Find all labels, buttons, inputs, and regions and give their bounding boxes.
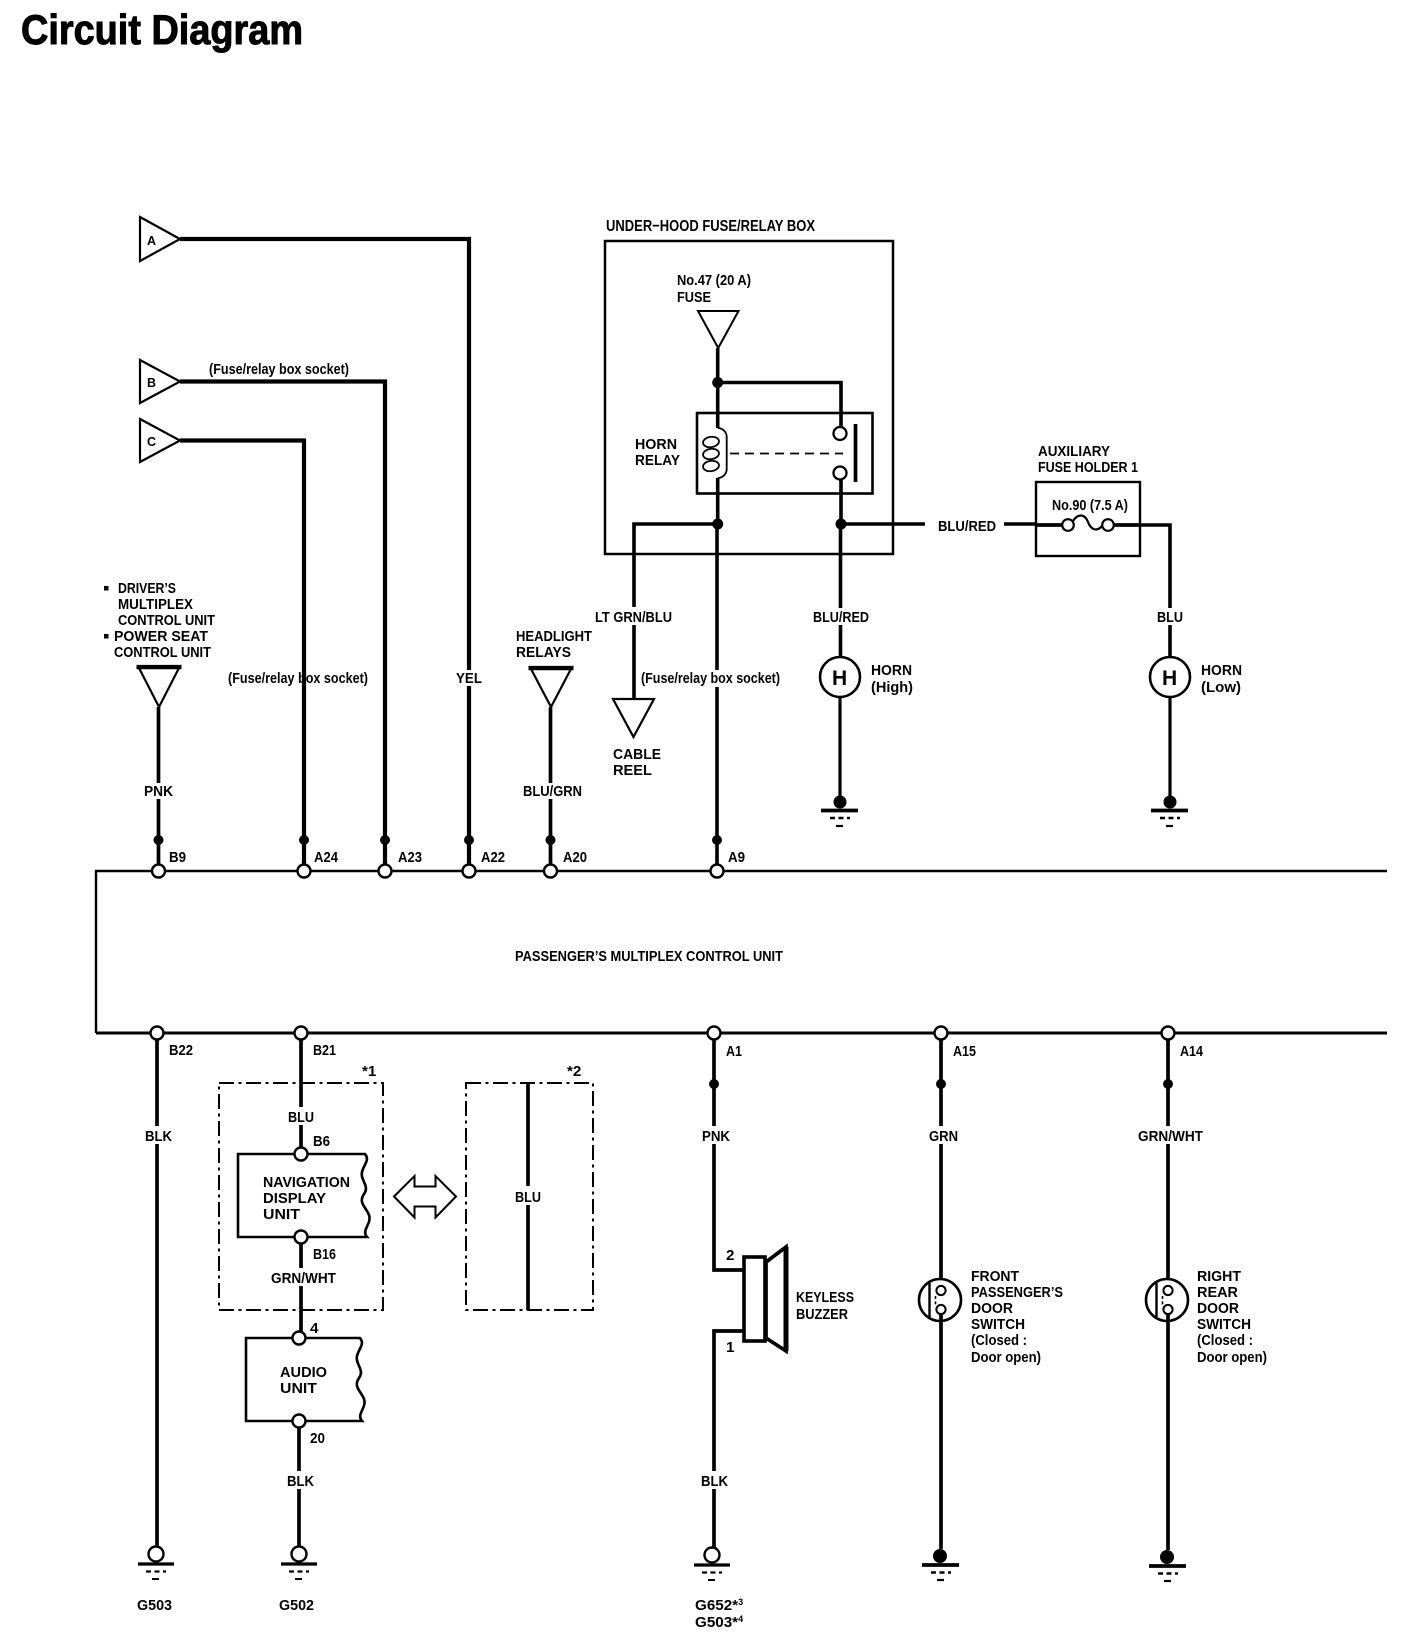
svg-text:A: A — [147, 234, 156, 248]
svg-text:DOOR: DOOR — [971, 1300, 1013, 1317]
svg-text:HORN: HORN — [635, 436, 677, 453]
svg-text:GRN/WHT: GRN/WHT — [271, 1270, 337, 1287]
wire B21 BLU — [299, 1040, 303, 1154]
terminal A22 — [463, 865, 476, 878]
svg-text:A22: A22 — [481, 849, 505, 866]
wire fuse to coil — [716, 348, 720, 428]
svg-text:B: B — [147, 376, 156, 390]
svg-text:B22: B22 — [169, 1042, 193, 1059]
terminal A14 — [1162, 1027, 1175, 1040]
dash-dot box *2 — [466, 1083, 593, 1310]
terminal B6 — [295, 1148, 308, 1161]
wire contact down — [839, 479, 843, 524]
wire to ground — [939, 1313, 943, 1549]
svg-text:B9: B9 — [169, 849, 186, 866]
svg-text:UNDER−HOOD FUSE/RELAY BOX: UNDER−HOOD FUSE/RELAY BOX — [606, 218, 815, 235]
terminal B21 — [295, 1027, 308, 1040]
ground (A15) — [922, 1549, 959, 1580]
svg-text:BLU: BLU — [288, 1109, 314, 1126]
svg-text:RELAY: RELAY — [635, 452, 680, 469]
keyless buzzer — [744, 1247, 786, 1351]
svg-text:REEL: REEL — [613, 762, 652, 779]
svg-text:B6: B6 — [313, 1133, 330, 1150]
wire BLU to horn low — [1140, 525, 1170, 657]
svg-text:G652*3: G652*3 — [695, 1597, 743, 1614]
svg-text:PASSENGER’S MULTIPLEX CONTROL: PASSENGER’S MULTIPLEX CONTROL UNIT — [515, 948, 783, 965]
svg-text:No.90 (7.5 A): No.90 (7.5 A) — [1052, 497, 1128, 514]
terminal A1 — [708, 1027, 721, 1040]
label AUXILIARY FUSE HOLDER 1 — [1038, 443, 1138, 476]
svg-text:B16: B16 — [313, 1246, 336, 1263]
svg-text:H: H — [832, 667, 847, 690]
junction dot — [1163, 1079, 1173, 1089]
svg-text:A1: A1 — [726, 1043, 742, 1060]
svg-text:BUZZER: BUZZER — [796, 1306, 848, 1323]
svg-text:PASSENGER’S: PASSENGER’S — [971, 1284, 1063, 1301]
svg-text:CABLE: CABLE — [613, 746, 661, 763]
horn relay box — [697, 413, 873, 494]
svg-text:G502: G502 — [279, 1597, 314, 1614]
svg-text:*1: *1 — [362, 1063, 377, 1080]
svg-text:A9: A9 — [728, 849, 745, 866]
svg-text:BLU/RED: BLU/RED — [813, 609, 869, 626]
svg-text:PNK: PNK — [144, 783, 173, 800]
label GRN/WHT — [267, 1268, 339, 1287]
label BLU/GRN — [520, 783, 584, 800]
label BLU (box *2) — [511, 1186, 545, 1206]
connector arrow B — [140, 360, 180, 403]
label GRN/WHT — [1134, 1126, 1206, 1145]
wire BLK (audio) — [297, 1428, 301, 1547]
horn (low) — [1150, 657, 1190, 697]
wire BLU/RED to holder — [1004, 522, 1036, 526]
wire horn low to ground — [1168, 697, 1171, 802]
headlight relays connector — [516, 628, 593, 661]
wire LT GRN/BLU branch — [634, 524, 718, 710]
wire A9 down — [715, 524, 719, 871]
wire A15 GRN — [939, 1040, 943, 1288]
junction dot A23 — [380, 835, 390, 845]
svg-text:BLU/RED: BLU/RED — [938, 518, 996, 535]
svg-text:A15: A15 — [953, 1043, 976, 1060]
connector arrow C — [140, 419, 180, 462]
right rear door switch — [1146, 1279, 1188, 1321]
svg-text:G503: G503 — [137, 1597, 172, 1614]
label LT GRN/BLU — [590, 607, 676, 626]
svg-text:FUSE HOLDER 1: FUSE HOLDER 1 — [1038, 459, 1138, 476]
ground G652/G503 — [694, 1548, 743, 1632]
label BLK — [141, 1126, 175, 1145]
svg-text:BLU: BLU — [515, 1189, 541, 1206]
svg-text:AUDIO: AUDIO — [280, 1364, 327, 1381]
svg-text:BLK: BLK — [145, 1128, 172, 1145]
wire B22 BLK — [155, 1040, 159, 1547]
svg-text:FRONT: FRONT — [971, 1268, 1020, 1285]
svg-text:*2: *2 — [567, 1063, 581, 1080]
svg-text:A14: A14 — [1180, 1043, 1203, 1060]
relay contact bar — [854, 424, 858, 482]
wire C to A24 — [180, 441, 304, 872]
svg-text:20: 20 — [310, 1430, 325, 1447]
label HORN RELAY — [635, 436, 680, 469]
junction dot B9 — [154, 835, 164, 845]
wire to ground — [1166, 1313, 1170, 1550]
wire BLU/RED out of box — [841, 522, 925, 526]
label BLU/RED (horn high) — [810, 608, 872, 626]
junction dot — [712, 519, 723, 530]
horn (high) — [820, 657, 860, 697]
svg-text:B21: B21 — [313, 1042, 336, 1059]
label PNK — [699, 1126, 733, 1145]
svg-text:DOOR: DOOR — [1197, 1300, 1239, 1317]
svg-text:(Fuse/relay box socket): (Fuse/relay box socket) — [641, 670, 780, 687]
label BLK — [697, 1471, 731, 1490]
relay contact circles — [834, 427, 847, 440]
svg-text:A23: A23 — [398, 849, 422, 866]
svg-text:MULTIPLEX: MULTIPLEX — [118, 596, 193, 613]
ground G503 — [137, 1547, 174, 1615]
svg-text:HORN: HORN — [1201, 662, 1242, 679]
fuse No.90 element — [1036, 523, 1062, 527]
svg-text:KEYLESS: KEYLESS — [796, 1289, 854, 1306]
wire A1 PNK — [714, 1040, 743, 1270]
wire horn high to ground — [838, 697, 841, 802]
svg-text:BLK: BLK — [701, 1473, 728, 1490]
svg-text:REAR: REAR — [1197, 1284, 1238, 1301]
svg-text:HEADLIGHT: HEADLIGHT — [516, 628, 593, 645]
ground (horn low) — [1151, 796, 1188, 827]
terminal A20 — [544, 865, 557, 878]
svg-text:SWITCH: SWITCH — [971, 1316, 1025, 1333]
svg-text:No.47 (20 A): No.47 (20 A) — [677, 272, 751, 289]
svg-text:NAVIGATION: NAVIGATION — [263, 1174, 350, 1191]
junction dot — [836, 519, 847, 530]
svg-text:LT GRN/BLU: LT GRN/BLU — [595, 609, 672, 626]
svg-text:POWER SEAT: POWER SEAT — [114, 628, 209, 645]
ground G502 — [279, 1547, 317, 1615]
svg-text:(Closed :: (Closed : — [971, 1332, 1027, 1349]
svg-text:SWITCH: SWITCH — [1197, 1316, 1251, 1333]
junction dot — [709, 1079, 719, 1089]
svg-text:(Fuse/relay box socket): (Fuse/relay box socket) — [228, 670, 368, 687]
svg-text:H: H — [1162, 667, 1177, 690]
svg-text:HORN: HORN — [871, 662, 912, 679]
svg-text:2: 2 — [726, 1247, 734, 1264]
svg-text:Door open): Door open) — [971, 1349, 1041, 1366]
wire A14 GRN/WHT — [1166, 1040, 1170, 1288]
svg-text:Door open): Door open) — [1197, 1349, 1267, 1366]
terminal B16 — [295, 1231, 308, 1244]
svg-text:RELAYS: RELAYS — [516, 644, 571, 661]
wire A to A22 — [180, 239, 469, 871]
wire junction to contact — [718, 383, 841, 429]
wire BLU/GRN to A20 — [549, 707, 553, 871]
svg-text:BLU/GRN: BLU/GRN — [523, 783, 582, 800]
svg-text:(High): (High) — [871, 679, 913, 696]
wire PNK to B9 — [157, 707, 161, 871]
label BLK (audio) — [283, 1471, 317, 1490]
svg-text:AUXILIARY: AUXILIARY — [1038, 443, 1110, 460]
junction dot A22 — [464, 835, 474, 845]
svg-text:A20: A20 — [563, 849, 587, 866]
dash-dot box *1 — [219, 1083, 383, 1310]
wire coil to junction — [716, 478, 720, 524]
svg-text:DRIVER’S: DRIVER’S — [118, 580, 176, 597]
label fuse/relay box socket (A9) — [638, 670, 783, 687]
driver's multiplex control unit note — [104, 580, 216, 661]
label No.47 (20 A) FUSE — [677, 272, 751, 306]
junction dot A9 — [712, 835, 722, 845]
terminal 20 — [293, 1415, 306, 1428]
terminal 4 — [293, 1332, 306, 1345]
svg-text:PNK: PNK — [702, 1128, 730, 1145]
under-hood fuse/relay box — [605, 241, 893, 554]
ground (A14) — [1149, 1550, 1186, 1581]
wire BLU/RED contact to horn high — [839, 524, 843, 657]
relay coil — [702, 428, 726, 478]
svg-text:GRN/WHT: GRN/WHT — [1138, 1128, 1204, 1145]
svg-text:DISPLAY: DISPLAY — [263, 1190, 326, 1207]
svg-text:YEL: YEL — [456, 670, 482, 687]
svg-text:G503*4: G503*4 — [695, 1614, 743, 1631]
junction dot — [712, 377, 723, 388]
wire GRN/WHT — [299, 1244, 303, 1338]
svg-text:C: C — [147, 435, 156, 449]
svg-text:RIGHT: RIGHT — [1197, 1268, 1242, 1285]
svg-text:Circuit Diagram: Circuit Diagram — [21, 6, 303, 53]
junction dot A24 — [299, 835, 309, 845]
passenger's multiplex control unit box — [96, 871, 1387, 1033]
svg-text:(Fuse/relay box socket): (Fuse/relay box socket) — [209, 361, 349, 378]
svg-text:(Closed :: (Closed : — [1197, 1332, 1253, 1349]
wire buzzer to ground BLK — [714, 1331, 743, 1548]
ground (horn high) — [821, 796, 858, 827]
bidirectional arrow — [394, 1176, 456, 1218]
label BLU — [1153, 608, 1187, 626]
front passenger's door switch — [919, 1279, 961, 1321]
svg-text:CONTROL UNIT: CONTROL UNIT — [118, 612, 216, 629]
connector triangle (driver's units) — [138, 666, 180, 707]
fuse No.47 — [698, 311, 739, 348]
terminal A15 — [935, 1027, 948, 1040]
navigation display unit box — [238, 1154, 370, 1237]
svg-text:GRN: GRN — [929, 1128, 958, 1145]
label YEL on wire A22 — [453, 670, 486, 687]
terminal A23 — [379, 865, 392, 878]
svg-text:BLU: BLU — [1157, 609, 1183, 626]
relay dashed actuation line — [730, 453, 843, 455]
svg-text:A24: A24 — [314, 849, 338, 866]
label GRN — [925, 1126, 961, 1145]
connector arrow A — [140, 217, 180, 261]
wire B to A23 — [180, 382, 385, 872]
svg-text:4: 4 — [310, 1320, 319, 1337]
terminal A24 — [298, 865, 311, 878]
svg-text:FUSE: FUSE — [677, 289, 711, 306]
svg-text:UNIT: UNIT — [280, 1380, 318, 1397]
svg-text:1: 1 — [726, 1339, 735, 1356]
wire BLU inside box *2 — [526, 1083, 530, 1310]
junction dot — [936, 1079, 946, 1089]
junction dot A20 — [546, 835, 556, 845]
cable reel connector triangle — [613, 699, 654, 737]
svg-text:(Low): (Low) — [1201, 679, 1241, 696]
label PNK — [142, 783, 175, 800]
label BLU — [284, 1107, 318, 1126]
terminal B9 — [152, 865, 165, 878]
audio unit box — [246, 1338, 365, 1421]
terminal A9 — [711, 865, 724, 878]
auxiliary fuse holder 1 box — [1036, 482, 1140, 556]
svg-text:UNIT: UNIT — [263, 1206, 301, 1223]
svg-text:CONTROL UNIT: CONTROL UNIT — [114, 644, 212, 661]
svg-text:BLK: BLK — [287, 1473, 314, 1490]
terminal B22 — [151, 1027, 164, 1040]
